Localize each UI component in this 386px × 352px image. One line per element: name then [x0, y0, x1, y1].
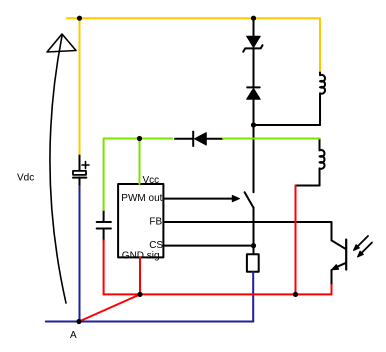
transistor Q1 emitter arrowhead — [332, 265, 339, 270]
wire emitter down (black part) — [331, 270, 333, 285]
svg-text:Vdc: Vdc — [17, 173, 34, 184]
svg-text:PWM out: PWM out — [121, 193, 162, 204]
wire red C2 drop — [103, 241, 105, 295]
transistor Q1 phototransistor bar — [345, 240, 347, 270]
svg-text:Vcc: Vcc — [143, 175, 160, 186]
wire diode string top lead — [253, 18, 255, 36]
wire red riser to L2 — [295, 186, 297, 295]
resistor R1 — [247, 254, 259, 271]
svg-text:FB: FB — [149, 217, 162, 228]
transistor Q1 collector diagonal — [332, 240, 346, 248]
wire inductor L2 bottom horizontal — [296, 185, 320, 187]
node dot green Vcc junction — [137, 136, 142, 141]
diode D3 — [193, 132, 206, 146]
inductor L2 — [320, 139, 325, 186]
transistor Q1 emitter diagonal — [336, 263, 346, 268]
wire blue cap drop — [79, 186, 81, 322]
arrowhead PWM out — [232, 195, 239, 201]
wire switch source down to resistor — [253, 207, 255, 254]
wire blue bottom rail — [46, 321, 254, 323]
wire red bottom rail — [104, 293, 332, 295]
wire green right segment — [223, 138, 320, 140]
svg-text:A: A — [70, 330, 77, 341]
node dot CS junction — [251, 243, 256, 248]
op-amp U1 PWM controller box — [118, 184, 163, 257]
wire CS line — [163, 245, 253, 247]
node dot top diode string — [251, 16, 256, 21]
wire red GND sig drop — [139, 258, 141, 295]
Vdc arrow head — [47, 34, 76, 52]
node dot A — [76, 319, 81, 324]
wire green left segment with drop to C2 — [104, 139, 172, 211]
node dot GND rail junction — [137, 292, 142, 297]
light arrow 2 — [358, 243, 373, 258]
diode D3 leads — [175, 138, 223, 140]
wire red emitter stub — [331, 285, 333, 294]
node dot red riser junction — [293, 292, 298, 297]
capacitor C2 100n — [97, 210, 111, 241]
wire red diagonal to node A — [79, 294, 140, 321]
wire between zener and diode — [253, 48, 255, 87]
node dot diode/L1 junction — [251, 122, 256, 127]
zener diode D1 — [243, 36, 262, 52]
diode D2 — [247, 87, 261, 99]
svg-text:CS: CS — [149, 240, 163, 251]
inductor L1 — [320, 73, 325, 126]
wire yellow left drop to capacitor — [79, 18, 81, 155]
capacitor C1 electrolytic — [73, 156, 89, 187]
Vdc arrow shaft — [50, 36, 66, 303]
wire yellow right drop to inductor L1 — [319, 18, 321, 72]
wire FB line — [163, 222, 331, 240]
wire green Vcc drop — [139, 139, 141, 185]
light arrow 1 — [354, 236, 369, 251]
wire top yellow rail — [67, 17, 320, 19]
switch Q (MOSFET as switch) blade — [245, 192, 254, 207]
wire PWM out line — [163, 198, 233, 200]
node dot top-left — [77, 16, 82, 21]
wire junction to inductor L1 bottom — [254, 124, 321, 126]
wire diode to switch vertical — [253, 99, 255, 192]
wire blue resistor drop — [252, 272, 254, 322]
